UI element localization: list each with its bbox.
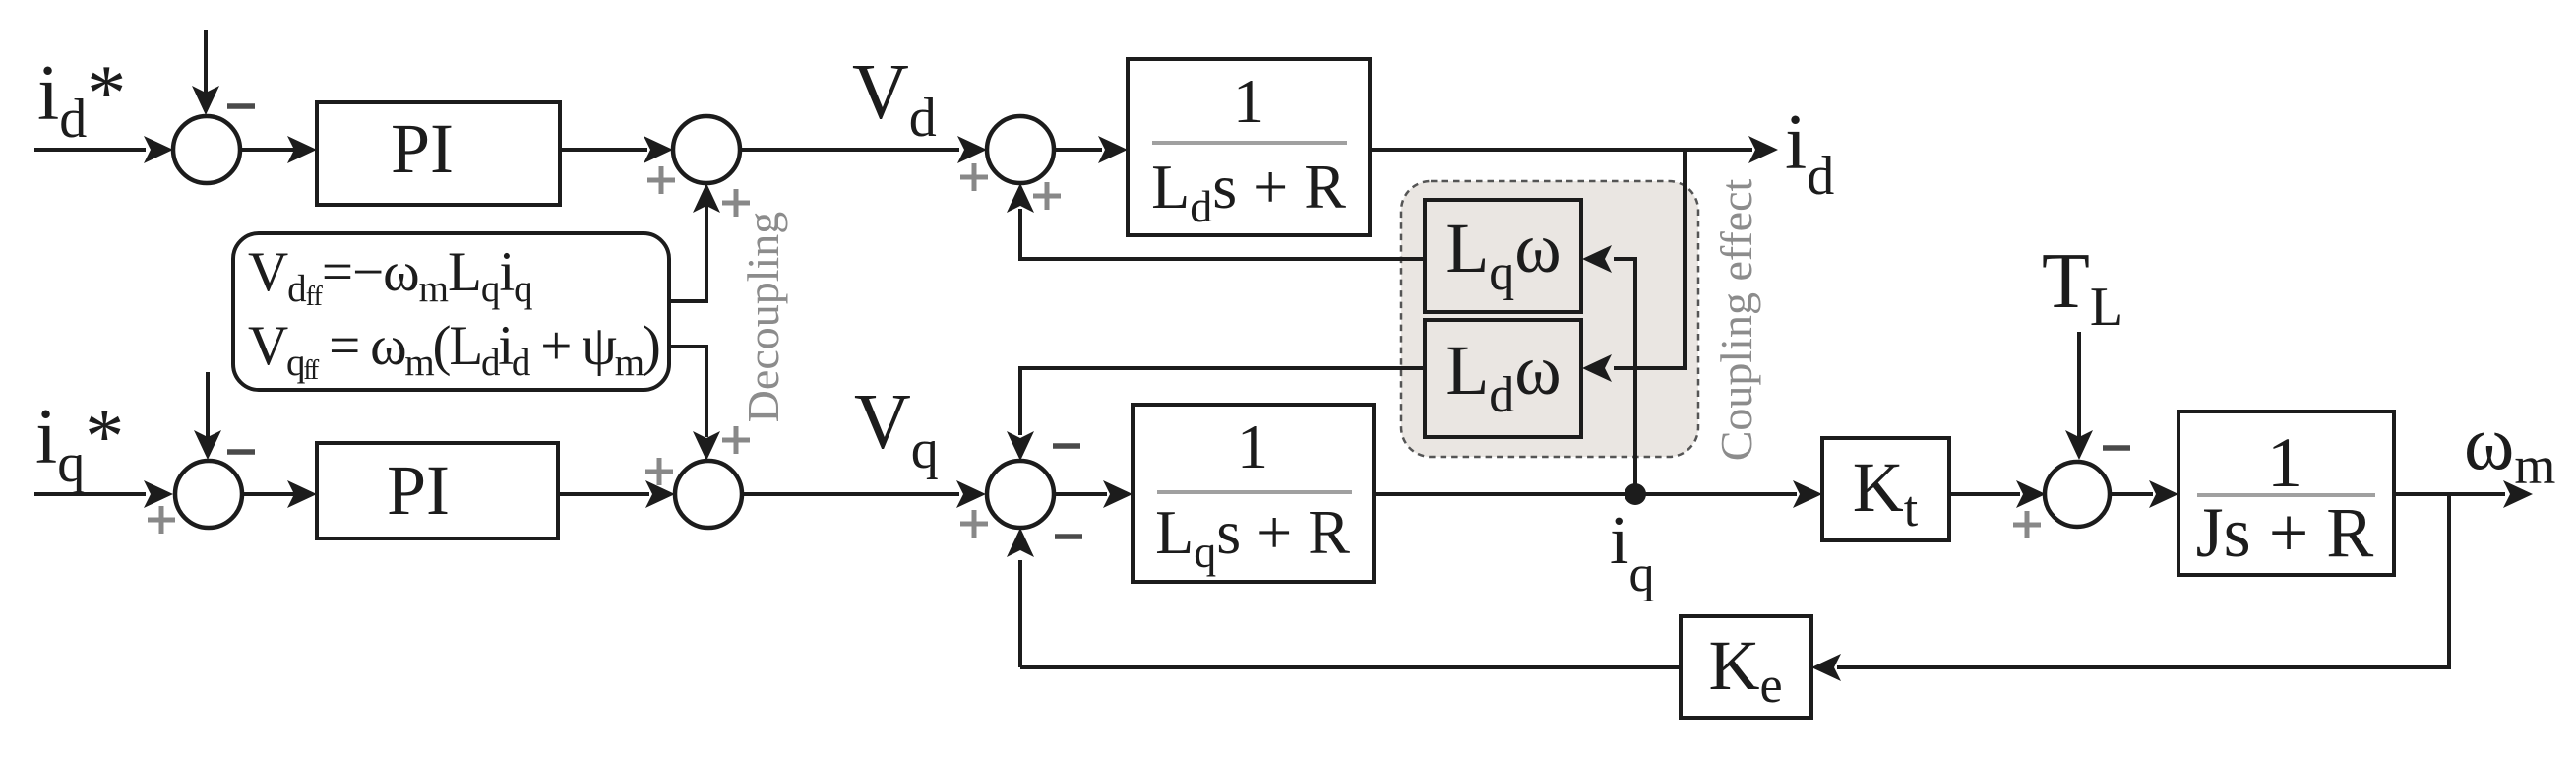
svg-text:Lds + R: Lds + R <box>1151 152 1346 231</box>
svg-text:PI: PI <box>391 109 454 188</box>
svg-text:Coupling effect: Coupling effect <box>1711 178 1761 461</box>
svg-text:1: 1 <box>1237 411 1268 481</box>
svg-text:Decoupling: Decoupling <box>738 212 788 423</box>
svg-text:PI: PI <box>387 451 450 530</box>
svg-text:Js + R: Js + R <box>2196 493 2374 572</box>
svg-text:Lqs + R: Lqs + R <box>1155 497 1350 577</box>
svg-text:1: 1 <box>2267 423 2302 502</box>
svg-text:1: 1 <box>1233 66 1264 136</box>
